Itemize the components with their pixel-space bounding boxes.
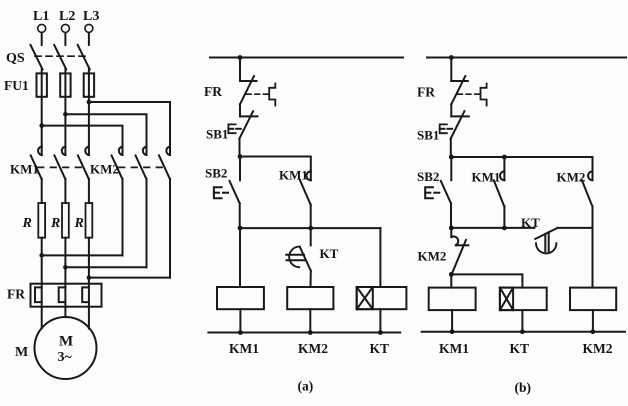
svg-text:KM1: KM1	[472, 170, 501, 185]
svg-text:R: R	[22, 216, 32, 231]
wire R3 to FR	[88, 238, 90, 284]
wire KM2 coil to bus (a)	[309, 309, 311, 332]
junction rail-mid (a)	[308, 226, 313, 231]
coil KM1 (a)	[217, 287, 264, 309]
svg-text:SB1: SB1	[417, 128, 439, 143]
wire phase1 fuse to KM1 contact	[41, 97, 43, 155]
svg-text:L3: L3	[83, 9, 99, 24]
wire SB2 to rail (a)	[239, 203, 241, 228]
pushbutton SB2 NO (b)	[441, 157, 452, 203]
svg-text:L2: L2	[59, 9, 75, 24]
contactor KM1 pole 2	[54, 147, 65, 179]
junction KM1-bus (b)	[450, 329, 455, 334]
terminal L3	[83, 9, 99, 32]
coil KT (a)	[357, 287, 407, 309]
wire R1 to FR	[41, 238, 43, 284]
SB2 actuator E (b)	[425, 187, 439, 198]
contactor KM2 pole 3	[159, 147, 170, 179]
wire FR to SB1 (a)	[239, 104, 241, 116]
wire L1 to QS	[41, 33, 43, 45]
contactor KM2 pole 1	[112, 147, 123, 179]
contactor KM2 pole 2	[136, 147, 147, 179]
bottom bus (a)	[208, 332, 400, 334]
svg-text:KT: KT	[521, 215, 540, 230]
wire rail to KM1 coil (a)	[239, 228, 241, 287]
svg-text:FR: FR	[417, 85, 435, 100]
auxiliary contact KM1 NO (a)	[300, 171, 311, 228]
junction KM2-bus (a)	[308, 330, 313, 335]
wire KM1 coil to bus (b)	[451, 310, 453, 332]
wire phase1 to KM2 pole1	[42, 126, 123, 155]
FR linkage dashes (a)	[247, 93, 269, 95]
wire KM2 pole2 bypass	[65, 179, 146, 267]
fuse FU1 pole 3	[84, 73, 94, 96]
wire rail to KT coil (a)	[379, 228, 381, 287]
node below KM2 NC (b)	[449, 272, 454, 277]
terminal L2	[59, 9, 75, 32]
KM2 linkage (dashed)	[119, 166, 165, 168]
node above SB2 (a)	[238, 154, 243, 159]
contactor KM1 pole 3	[78, 147, 89, 179]
time contact KT NC delayed (b)	[535, 228, 592, 254]
svg-text:KM1: KM1	[229, 341, 259, 356]
svg-text:KM1: KM1	[439, 341, 469, 356]
wire L3 to QS	[88, 33, 90, 45]
switch QS pole 3	[78, 45, 90, 69]
wire node to KM1 coil (b)	[450, 274, 452, 287]
junction rail-left (a)	[238, 226, 243, 231]
svg-text:L1: L1	[33, 9, 49, 24]
wire KT coil to bus (a)	[379, 309, 381, 332]
switch QS pole 2	[54, 45, 66, 69]
node bypass 2	[63, 265, 68, 270]
wire R2 to FR	[64, 238, 66, 284]
SB2 actuator E (a)	[214, 187, 228, 198]
wire node to KM1 branch (a)	[240, 157, 311, 181]
wire KM2 pole1 bypass	[42, 179, 123, 256]
lower rail (b)	[451, 227, 534, 229]
node phase2 tap	[63, 112, 68, 117]
KM1 linkage (dashed)	[38, 166, 87, 168]
wire KM1 pole3 to R3	[88, 179, 90, 203]
FR NC contact (a)	[240, 76, 257, 104]
FR linkage dashes (b)	[458, 93, 480, 95]
SB1 actuator E (a)	[228, 124, 240, 133]
wire KM1 coil to bus (a)	[239, 309, 241, 332]
wire bus to FR contact (b)	[450, 58, 452, 82]
wire bus to FR contact (a)	[239, 58, 241, 82]
svg-text:FR: FR	[204, 84, 222, 99]
wire SB1 to node (b)	[450, 139, 452, 157]
node bus tap (b)	[449, 55, 454, 60]
pushbutton SB1 NC (b)	[451, 111, 469, 139]
svg-text:KT: KT	[510, 341, 530, 356]
top rail (b)	[451, 156, 592, 158]
svg-text:KM2: KM2	[90, 162, 119, 177]
svg-text:KT: KT	[320, 246, 339, 261]
node bypass 1	[39, 253, 44, 258]
coil KM2 (b)	[570, 288, 616, 311]
fuse FU1 pole 2	[60, 73, 70, 96]
wire SB2 to node (b)	[450, 203, 452, 228]
fuse FU1 pole 1	[37, 73, 47, 96]
wire phase2 fuse to KM1 contact	[64, 97, 66, 155]
terminal L1	[33, 9, 49, 32]
resistor R2	[50, 203, 69, 238]
svg-text:KT: KT	[370, 341, 390, 356]
wire KT coil to bus (b)	[521, 310, 523, 332]
wire phase3 to KM2 pole3	[89, 102, 170, 155]
svg-text:KM1: KM1	[10, 162, 39, 177]
svg-text:R: R	[74, 216, 84, 231]
node phase1 tap	[39, 123, 44, 128]
svg-text:SB1: SB1	[206, 127, 228, 142]
wire phase2 to KM2 pole2	[65, 114, 146, 155]
svg-text:(a): (a)	[298, 379, 314, 394]
FR actuator bracket (b)	[481, 84, 487, 106]
svg-text:KM2: KM2	[298, 341, 328, 356]
auxiliary contact KM1 NO (b)	[494, 157, 505, 228]
contactor KM1 pole 1	[31, 147, 42, 179]
junction KT-bus (a)	[378, 330, 383, 335]
junction rail-left (b)	[449, 226, 454, 231]
svg-text:3~: 3~	[58, 350, 73, 365]
svg-text:FU1: FU1	[4, 78, 29, 93]
wire KM1 pole2 to R2	[64, 179, 66, 203]
svg-text:SB2: SB2	[205, 166, 227, 181]
time contact KT NO delayed (a)	[286, 228, 311, 271]
wire KM2 coil to bus (b)	[592, 310, 594, 332]
junction KT-bus (b)	[520, 329, 525, 334]
top bus (a)	[210, 57, 403, 59]
wire FR to motor 3	[88, 307, 90, 329]
wire QS to FU1 pole 1	[41, 69, 43, 73]
wire FR to SB1 (b)	[450, 104, 452, 116]
node rail (a)	[240, 227, 380, 229]
coil KM2 (a)	[287, 287, 333, 309]
FR heater 2	[59, 284, 66, 307]
switch QS pole 1	[31, 45, 43, 69]
thermal relay FR box	[31, 284, 102, 307]
junction KM1-bus (a)	[238, 330, 243, 335]
node phase3 tap	[87, 100, 92, 105]
svg-text:SB2: SB2	[417, 169, 439, 184]
node above SB2 (b)	[449, 155, 454, 160]
coil KM1 (b)	[429, 288, 476, 311]
FR heater 3	[82, 284, 89, 307]
wire FR to motor 2	[64, 307, 66, 317]
FR heater 1	[35, 284, 42, 307]
svg-text:KM2: KM2	[557, 170, 586, 185]
svg-text:FR: FR	[7, 287, 25, 302]
wire QS to FU1 pole 2	[64, 69, 66, 73]
node bus tap (a)	[238, 55, 243, 60]
top bus (b)	[427, 57, 626, 59]
wire phase3 fuse to KM1 contact	[88, 97, 90, 155]
pushbutton SB1 NC (a)	[239, 111, 257, 139]
auxiliary contact KM2 NO (b)	[582, 157, 593, 206]
junction rail-KM1 (b)	[502, 226, 507, 231]
wire QS to FU1 pole 3	[88, 69, 90, 73]
pushbutton SB2 NO (a)	[230, 157, 241, 204]
FR actuator bracket (a)	[269, 84, 275, 106]
resistor R3	[74, 203, 93, 238]
motor M	[35, 317, 97, 379]
wire FR to motor 1	[41, 307, 43, 329]
junction KM1 branch (b)	[502, 155, 507, 160]
wire L2 to QS	[64, 33, 66, 45]
resistor R1	[22, 203, 46, 238]
wire SB1 to node (a)	[239, 139, 241, 157]
node bypass 3	[87, 275, 92, 280]
QS linkage (dashed)	[35, 55, 90, 57]
bottom bus (b)	[422, 331, 625, 333]
wire node to KT coil (b)	[451, 274, 522, 287]
coil KT (b)	[500, 288, 547, 311]
svg-text:(b): (b)	[515, 380, 532, 395]
svg-text:M: M	[59, 334, 73, 350]
svg-text:QS: QS	[6, 51, 25, 66]
auxiliary contact KM2 NC (b)	[451, 228, 468, 273]
wire KT contact to KM2 coil (a)	[310, 271, 312, 287]
wire KM2 pole3 bypass	[89, 179, 170, 278]
svg-text:KM2: KM2	[418, 249, 447, 264]
wire KM2 contact to coil (b)	[592, 206, 594, 287]
junction KM2-bus (b)	[591, 329, 596, 334]
SB1 actuator E (b)	[440, 124, 452, 133]
svg-text:KM1: KM1	[279, 168, 308, 183]
svg-text:KM2: KM2	[583, 341, 613, 356]
svg-text:M: M	[15, 345, 28, 360]
wire KM1 pole1 to R1	[41, 179, 43, 203]
FR NC contact (b)	[451, 76, 468, 104]
svg-text:R: R	[50, 216, 60, 231]
